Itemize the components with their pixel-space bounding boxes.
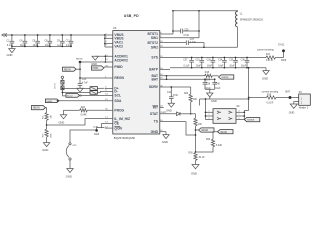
svg-text:SDA2: SDA2 (46, 100, 52, 103)
svg-text:INT: INT (153, 106, 158, 110)
inductor L1 (236, 10, 264, 47)
svg-text:SCL: SCL (114, 94, 121, 98)
svg-text:0.01 R: 0.01 R (267, 102, 274, 104)
pin GND 27 (151, 130, 166, 134)
svg-text:R25: R25 (43, 116, 45, 119)
pin QON 12 (105, 126, 123, 130)
svg-text:C41: C41 (167, 92, 172, 94)
op-amp U6 charger IC body (113, 14, 160, 140)
pin ACDRV2 10 (80, 59, 128, 63)
svg-text:C35: C35 (229, 60, 234, 62)
node REGN net label left (63, 67, 81, 71)
pin SW2 20 (151, 46, 238, 50)
pin ACDRV1 12 (95, 55, 128, 63)
resistor R25 (43, 108, 53, 129)
wire VBUS input rail (5, 34, 105, 36)
test point TP1 (61, 76, 63, 96)
transistor Q2a glyph (229, 111, 233, 114)
svg-text:PROG: PROG (114, 109, 124, 113)
svg-text:8: 8 (239, 111, 240, 113)
svg-text:Header 2: Header 2 (299, 107, 309, 110)
svg-text:PMID: PMID (93, 68, 99, 70)
svg-text:VAC2: VAC2 (114, 44, 123, 48)
transistor Q1b glyph (217, 117, 221, 120)
resistor R26 (189, 152, 205, 165)
capacitor C24 (78, 79, 89, 88)
diode D7 ESD (55, 80, 64, 88)
capacitor C11 (66, 34, 74, 47)
svg-text:ACDRV2: ACDRV2 (114, 59, 128, 63)
off-page connector VBUS input (2, 33, 7, 36)
svg-text:R26: R26 (189, 152, 194, 154)
svg-text:SPM6530T-1R0M120: SPM6530T-1R0M120 (240, 19, 264, 22)
svg-text:GND: GND (289, 111, 295, 114)
svg-text:source: source (247, 119, 255, 122)
svg-text:STAT: STAT (150, 112, 158, 116)
svg-text:10uF: 10uF (196, 66, 202, 68)
svg-text:C32: C32 (195, 60, 200, 62)
svg-text:R22: R22 (184, 93, 189, 95)
resistor R24 (64, 107, 105, 116)
svg-text:0.1uF: 0.1uF (7, 45, 13, 47)
pin BTST2 19 (148, 41, 187, 45)
ground IC GND pin (162, 132, 169, 145)
svg-text:BQ25792RQMR: BQ25792RQMR (114, 136, 135, 140)
pin SW1 5 (151, 36, 199, 40)
svg-text:REGN: REGN (202, 130, 209, 132)
svg-text:1: 1 (209, 111, 210, 113)
svg-text:C40: C40 (216, 84, 221, 86)
ground P3 pin2 (289, 102, 298, 115)
node source net label 2 (244, 118, 259, 122)
node REGN net label bottom (32, 106, 47, 110)
svg-text:GND: GND (151, 130, 159, 134)
svg-text:R23: R23 (206, 139, 211, 141)
svg-text:GND: GND (162, 140, 168, 144)
wire input cap bottom rail (12, 45, 71, 47)
svg-text:GND: GND (262, 76, 268, 80)
svg-text:NF: NF (237, 105, 241, 108)
svg-text:REGN: REGN (76, 58, 83, 60)
capacitor C34 (218, 57, 227, 69)
svg-text:REGN: REGN (64, 69, 71, 71)
svg-text:4.7uF: 4.7uF (82, 82, 88, 84)
svg-text:0.01 R: 0.01 R (266, 60, 273, 62)
pin D+ 5 (105, 87, 119, 91)
capacitor C38 (203, 78, 212, 90)
svg-text:4.7uF: 4.7uF (183, 35, 189, 37)
capacitor C9 (57, 34, 65, 47)
capacitor C35 (229, 57, 238, 69)
wire BTST1 riser (172, 10, 174, 34)
svg-text:QON: QON (114, 126, 122, 130)
svg-text:SW1: SW1 (151, 36, 158, 40)
svg-text:QON: QON (93, 126, 98, 128)
svg-text:GND: GND (7, 53, 13, 57)
wire ILIM line (47, 119, 105, 125)
svg-text:SYS1: SYS1 (278, 44, 285, 47)
pin INT 24 (152, 106, 164, 110)
resistor R21 (194, 114, 202, 153)
pin VBUS 3 (105, 37, 124, 41)
pin STAT 23 (150, 112, 177, 116)
svg-text:U6: U6 (113, 26, 117, 30)
capacitor C36 (241, 57, 250, 69)
capacitor C8 (45, 34, 53, 47)
svg-text:CE: CE (114, 122, 119, 126)
ground R24 (59, 115, 67, 125)
capacitor C2 (7, 34, 15, 47)
capacitor C25 bootstrap (173, 29, 199, 37)
svg-text:D7 5V: D7 5V (55, 82, 57, 88)
ground C24 (76, 88, 83, 97)
svg-text:GND: GND (191, 171, 197, 175)
pin BTST1 6 (148, 32, 173, 36)
svg-text:REGN: REGN (114, 76, 124, 80)
svg-text:3029: 3029 (281, 60, 287, 62)
svg-text:C38: C38 (206, 84, 211, 86)
svg-text:SYS: SYS (151, 56, 158, 60)
svg-text:IL_IM_HIZ: IL_IM_HIZ (114, 117, 130, 121)
svg-text:7: 7 (239, 114, 240, 116)
capacitor C27 bootstrap2 (186, 39, 205, 48)
svg-text:REGN: REGN (221, 132, 228, 134)
diode D13 on STAT (163, 112, 196, 116)
ferrite bead FB1 (62, 87, 105, 91)
capacitor C41 (167, 86, 179, 103)
svg-text:SCL2: SCL2 (67, 96, 73, 98)
svg-text:C11: C11 (66, 41, 71, 43)
svg-text:100K: 100K (50, 133, 52, 138)
transistor Q1a glyph (217, 111, 221, 114)
svg-text:R18: R18 (205, 72, 210, 74)
svg-text:C25: C25 (184, 29, 189, 31)
pin SDA 15 (59, 99, 122, 103)
resistor R23 (196, 132, 223, 152)
wire NF left bus (205, 98, 213, 120)
pin VBUS 2 (105, 33, 124, 37)
wire NF ground rail (200, 99, 249, 106)
svg-text:C37: C37 (183, 60, 188, 62)
pin REGN 1 (80, 76, 125, 80)
wire SW1 riser (198, 10, 200, 38)
wire CE drop (101, 123, 103, 128)
resistor R28 (43, 129, 53, 143)
svg-text:SW2: SW2 (151, 46, 158, 50)
svg-text:GND: GND (166, 108, 172, 112)
ground R28 (42, 143, 50, 152)
svg-text:GND: GND (66, 175, 72, 179)
capacitor C30 (207, 57, 216, 69)
pin BAT 15 (151, 77, 214, 81)
pin PMID 29 (104, 65, 123, 69)
wire NF right bus (236, 111, 249, 120)
svg-text:USB_PD: USB_PD (124, 14, 139, 18)
svg-text:R17: R17 (266, 54, 271, 56)
svg-text:10uF: 10uF (33, 45, 39, 47)
svg-text:10K: 10K (198, 124, 203, 126)
svg-text:SDRV: SDRV (149, 85, 159, 89)
pin BATP 18 (149, 68, 170, 72)
svg-text:10K: 10K (193, 99, 198, 101)
capacitor C40 (212, 78, 221, 90)
svg-text:R19: R19 (267, 94, 272, 96)
svg-text:30.1K: 30.1K (199, 157, 205, 159)
resistor R19 current sense (249, 90, 299, 104)
ground C41 (166, 103, 175, 112)
mosfet pack U8 body (213, 105, 240, 123)
pin TS 16 (154, 120, 186, 124)
pin SDRV 26 (149, 85, 191, 89)
resistor R18 (204, 72, 219, 82)
svg-text:1uF: 1uF (57, 45, 62, 47)
wire VBUS pin feed vertical (104, 34, 106, 47)
svg-text:C27: C27 (190, 39, 195, 41)
node BAT (286, 91, 292, 99)
pin D- 6 (105, 90, 118, 94)
node USB port label (62, 94, 105, 98)
svg-text:source: source (222, 76, 230, 79)
svg-text:10uF: 10uF (241, 66, 247, 68)
ferrite bead FB2 (62, 91, 105, 95)
svg-text:0.1uF: 0.1uF (66, 45, 72, 47)
diode D8 ESD (61, 86, 64, 90)
wire BAT sense riser (248, 67, 250, 111)
resistor R17 current sense (257, 48, 287, 62)
connector P3 Header 2 (295, 91, 311, 109)
svg-text:current sensing: current sensing (262, 90, 279, 93)
ground C38 C40 (205, 89, 217, 103)
pin VAC1 8 (105, 41, 123, 45)
svg-text:REGN: REGN (33, 108, 40, 110)
svg-text:SDA: SDA (114, 99, 122, 103)
pin BAT 16 (151, 74, 204, 78)
ground SP1 (66, 169, 73, 179)
svg-text:10uF: 10uF (45, 45, 51, 47)
ground R26 (191, 165, 199, 176)
transistor Q2b glyph (229, 117, 233, 120)
node REGN tap (76, 58, 83, 83)
pin SYS 21 (151, 56, 266, 60)
wire SYS cap bottom rail (170, 67, 266, 69)
svg-text:R28: R28 (43, 134, 45, 137)
node SDA2 port (45, 99, 59, 103)
svg-text:BTST2: BTST2 (148, 41, 159, 45)
svg-text:4.7uF: 4.7uF (190, 42, 196, 44)
svg-text:C36: C36 (241, 60, 246, 62)
svg-text:GND: GND (59, 120, 65, 124)
svg-text:2: 2 (209, 114, 210, 116)
svg-text:C23: C23 (82, 79, 87, 81)
svg-text:LC: LC (163, 112, 166, 114)
ground SYS caps (262, 68, 269, 81)
pin SCL 14 (105, 94, 121, 98)
node PMID net label (92, 66, 105, 70)
pin IL_IM_HIZ 17 (105, 117, 130, 121)
svg-text:C34: C34 (218, 60, 223, 62)
pin CE 13 (102, 122, 120, 126)
node REGN net label 2 (218, 130, 234, 134)
node REGN net label (196, 128, 215, 132)
svg-text:R24: R24 (81, 107, 86, 109)
svg-text:5.24K: 5.24K (216, 145, 222, 147)
svg-text:10uF: 10uF (218, 66, 224, 68)
svg-text:3: 3 (209, 118, 210, 120)
svg-text:10uF: 10uF (20, 45, 26, 47)
switch SP1 (66, 143, 77, 169)
svg-text:BATP: BATP (149, 68, 159, 72)
ground ACDRV1 (91, 56, 98, 66)
capacitor C4 (20, 34, 28, 47)
wire TS feed (186, 122, 196, 136)
svg-text:BAT: BAT (151, 77, 158, 81)
node SYS1 (278, 44, 285, 58)
node source net label (219, 75, 234, 79)
wire switch-node top rail (173, 10, 238, 12)
capacitor C6 (32, 34, 40, 47)
svg-text:PMID: PMID (114, 65, 123, 69)
svg-text:6.04K: 6.04K (81, 114, 87, 116)
svg-text:BAT: BAT (286, 91, 291, 94)
pin VAC2 9 (105, 44, 123, 48)
capacitor C37 (183, 57, 194, 69)
ground input caps (7, 46, 16, 56)
svg-text:current sensing: current sensing (257, 48, 274, 51)
pin PROG 26 (105, 109, 125, 113)
resistor R22 (184, 87, 197, 115)
svg-text:3029: 3029 (94, 134, 100, 136)
svg-text:GND: GND (42, 148, 48, 152)
wire BAT pin tie (166, 75, 168, 80)
svg-text:0.1uF: 0.1uF (184, 66, 190, 68)
svg-text:GND: GND (211, 99, 217, 103)
wire QON line (70, 126, 104, 142)
svg-text:C30: C30 (207, 60, 212, 62)
svg-text:10uF: 10uF (215, 88, 221, 90)
svg-text:10uF: 10uF (207, 66, 213, 68)
svg-text:GND: GND (91, 62, 97, 66)
svg-text:10uF: 10uF (229, 66, 235, 68)
capacitor C32 (195, 57, 204, 69)
svg-text:6: 6 (239, 118, 240, 120)
svg-text:47uF: 47uF (173, 95, 179, 97)
